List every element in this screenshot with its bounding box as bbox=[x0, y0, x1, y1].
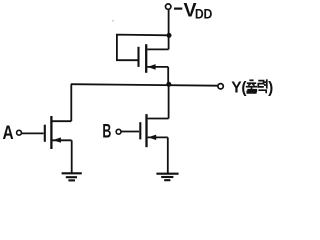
node output junction dot bbox=[166, 82, 171, 87]
transistor Q1 (load NMOS, gate tied to drain) bbox=[139, 44, 169, 73]
svg-text:): ) bbox=[268, 79, 273, 96]
transistor Q3 (input B NMOS) bbox=[140, 114, 168, 147]
wire Q3 drain up to output node bbox=[168, 84, 170, 118]
terminal B input bbox=[116, 129, 121, 134]
svg-text:(: ( bbox=[241, 79, 247, 96]
terminal VDD bbox=[166, 4, 171, 9]
terminal Y output bbox=[218, 84, 223, 89]
label Y(output) bbox=[231, 79, 273, 96]
terminal A input bbox=[17, 130, 22, 135]
node junction dot at VDD/gate tie bbox=[167, 33, 172, 38]
svg-text:A: A bbox=[3, 121, 14, 143]
label hangul chul (output syllable 1) bbox=[246, 80, 257, 93]
transistor Q2 (input A NMOS) bbox=[45, 116, 72, 149]
wire B gate lead bbox=[121, 131, 139, 133]
wire Q1 source to output node bbox=[167, 67, 169, 85]
ground (Q2 source) bbox=[62, 173, 82, 180]
wire Q3 source down bbox=[167, 137, 169, 173]
wire Q2 drain up to output line bbox=[70, 84, 72, 121]
label -VDD bbox=[174, 0, 212, 22]
svg-text:B: B bbox=[102, 121, 111, 142]
faint scan speck bbox=[112, 20, 114, 22]
label hangul ryeok (output syllable 2) bbox=[258, 79, 267, 93]
wire A gate lead bbox=[21, 132, 43, 134]
wire Q2 source down bbox=[71, 140, 73, 173]
wire gate-to-drain loop of Q1 bbox=[117, 35, 169, 61]
ground (Q3 source) bbox=[156, 174, 178, 181]
wire VDD rail down to Q1 drain bbox=[168, 9, 170, 49]
svg-text:DD: DD bbox=[195, 6, 212, 22]
wire output line bbox=[71, 84, 218, 86]
